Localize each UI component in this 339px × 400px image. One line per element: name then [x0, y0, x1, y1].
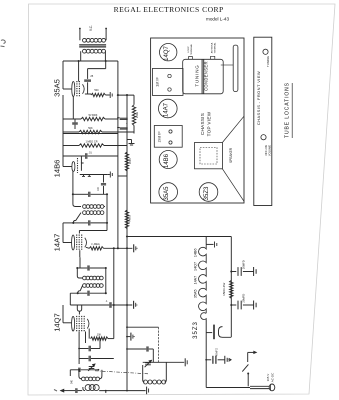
- svg-text:+: +: [126, 121, 128, 125]
- svg-text:ANTENNA: ANTENNA: [210, 42, 213, 53]
- svg-text:TERMINAL: TERMINAL: [190, 43, 193, 55]
- svg-text:¼ MEG: ¼ MEG: [91, 243, 100, 246]
- svg-text:14A7: 14A7: [194, 276, 198, 285]
- svg-text:14A7: 14A7: [164, 102, 170, 117]
- svg-text:14A7: 14A7: [52, 234, 61, 252]
- svg-text:35A5: 35A5: [52, 79, 61, 97]
- svg-text:40MFD: 40MFD: [215, 348, 218, 356]
- svg-text:V.C.: V.C.: [89, 25, 93, 31]
- svg-text:1st IF: 1st IF: [155, 77, 160, 87]
- svg-text:150Ω-2W: 150Ω-2W: [222, 283, 226, 296]
- svg-text:SPEAKER: SPEAKER: [229, 147, 233, 163]
- svg-text:100K: 100K: [129, 158, 132, 164]
- svg-text:REGAL ELECTRONICS CORP: REGAL ELECTRONICS CORP: [114, 5, 224, 14]
- svg-text:TOP VIEW: TOP VIEW: [206, 111, 211, 136]
- svg-text:14Q7: 14Q7: [164, 46, 170, 61]
- svg-text:CONDENSER: CONDENSER: [204, 61, 209, 91]
- svg-text:10K: 10K: [97, 333, 102, 336]
- svg-text:CHASSIS: CHASSIS: [200, 113, 205, 135]
- svg-text:W 500K: W 500K: [89, 114, 98, 117]
- svg-text:14B6: 14B6: [52, 160, 61, 178]
- svg-text:250Ω: 250Ω: [136, 112, 139, 118]
- svg-text:4 MEG: 4 MEG: [129, 215, 132, 223]
- svg-text:500: 500: [94, 89, 99, 92]
- svg-text:14Q7: 14Q7: [52, 313, 61, 332]
- svg-text:TUNING: TUNING: [266, 55, 270, 67]
- svg-text:35Z3: 35Z3: [193, 321, 199, 339]
- svg-text:TERMINAL: TERMINAL: [213, 42, 216, 54]
- svg-text:35A5: 35A5: [164, 186, 170, 201]
- svg-text:20MFD: 20MFD: [242, 260, 246, 269]
- svg-text:14Q7: 14Q7: [194, 262, 198, 271]
- svg-text:35Z3: 35Z3: [204, 186, 210, 200]
- svg-text:2nd IF: 2nd IF: [156, 131, 161, 143]
- svg-text:TUNING: TUNING: [194, 64, 199, 86]
- svg-text:model L-43: model L-43: [206, 16, 229, 21]
- svg-text:CHASSIS - FRONT VIEW: CHASSIS - FRONT VIEW: [256, 71, 261, 125]
- svg-text:14B6: 14B6: [164, 153, 170, 168]
- svg-text:AC-DC: AC-DC: [270, 372, 274, 382]
- svg-text:20MFD: 20MFD: [242, 294, 246, 303]
- svg-text:TUBE LOCATIONS: TUBE LOCATIONS: [285, 82, 291, 138]
- svg-text:50K: 50K: [88, 127, 93, 130]
- svg-text:LOOP: LOOP: [188, 46, 190, 53]
- svg-text:VOLUME: VOLUME: [267, 145, 271, 157]
- svg-text:35A5: 35A5: [194, 289, 198, 298]
- svg-text:1 MEG CR: 1 MEG CR: [85, 140, 97, 143]
- svg-text:14B6: 14B6: [194, 248, 198, 257]
- svg-text:.01: .01: [88, 151, 92, 154]
